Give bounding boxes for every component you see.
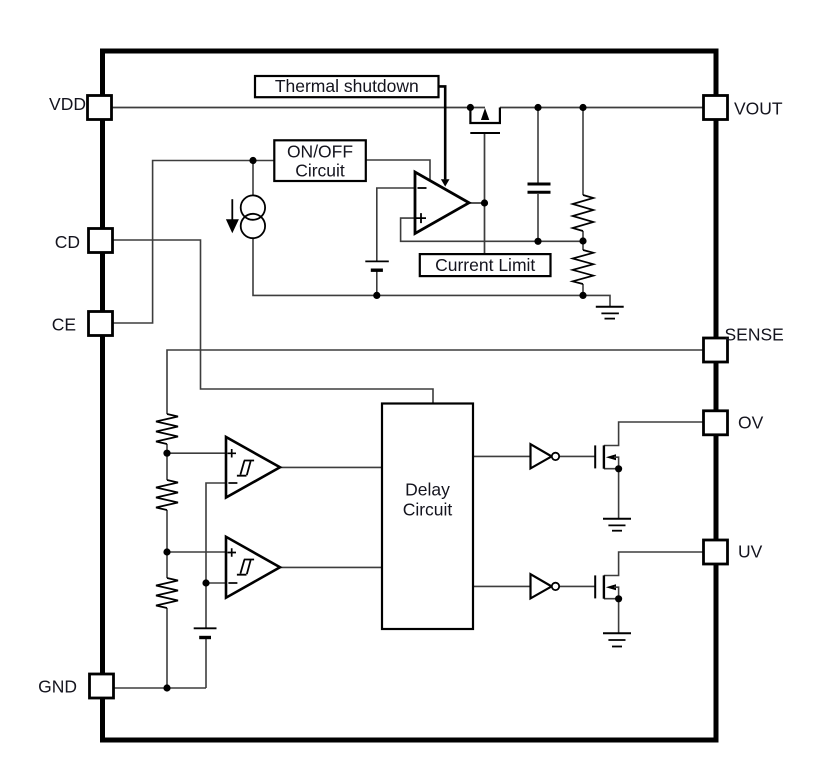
svg-text:Circuit: Circuit xyxy=(403,500,453,520)
node M1 source xyxy=(615,465,622,472)
node divider tap xyxy=(579,237,586,244)
node VDD/PMOS source xyxy=(467,104,474,111)
capacitor C1 xyxy=(528,184,551,192)
wire op-amp plus input feedback xyxy=(401,218,583,241)
wire M2 drain to UV pin xyxy=(604,552,704,576)
svg-text:ON/OFF: ON/OFF xyxy=(287,142,353,162)
pin VOUT xyxy=(704,96,783,120)
comparator B xyxy=(226,537,280,598)
svg-text:CE: CE xyxy=(52,315,76,335)
wire M1 drain to OV pin xyxy=(604,422,704,446)
svg-text:Delay: Delay xyxy=(405,480,450,500)
wire divider tap lead xyxy=(582,231,584,250)
resistor RA xyxy=(156,414,178,444)
wire chain RA-RB xyxy=(166,444,168,480)
resistor R1 xyxy=(573,195,594,231)
ground symbol M1 xyxy=(603,519,631,531)
resistor RB xyxy=(156,480,178,510)
wire Delay to inverter B xyxy=(473,585,531,587)
wire GND rail xyxy=(114,687,207,689)
pin SENSE xyxy=(704,325,784,363)
wire divider top lead xyxy=(582,108,584,196)
battery B1 (Vref) xyxy=(365,261,389,270)
wire op-amp output node xyxy=(469,133,485,254)
svg-text:SENSE: SENSE xyxy=(725,325,784,345)
svg-text:VOUT: VOUT xyxy=(734,99,783,119)
node capacitor top xyxy=(534,104,541,111)
node op-amp output xyxy=(481,199,488,206)
resistor R2 xyxy=(573,250,594,284)
box delay circuit xyxy=(382,404,473,630)
pin OV xyxy=(704,411,764,435)
wire comparator A output to Delay xyxy=(280,466,382,468)
wire ON/OFF output to op-amp xyxy=(366,160,430,181)
wire tap1 to comparator A plus xyxy=(167,452,226,454)
svg-text:CD: CD xyxy=(55,232,80,252)
pin UV xyxy=(704,540,763,564)
wire op-amp minus input to reference battery xyxy=(377,188,415,261)
node M2 source xyxy=(615,595,622,602)
wire M1 source to ground xyxy=(604,469,619,519)
node chain tap2 xyxy=(163,548,170,555)
wire battery B1 bottom lead xyxy=(376,272,378,296)
pmos pass transistor Q1 xyxy=(470,108,500,134)
box thermal shutdown xyxy=(255,76,439,97)
node battery B1 bottom xyxy=(373,292,380,299)
wire chain RB-RC xyxy=(166,510,168,578)
wire current source to internal ground rail xyxy=(253,238,610,307)
pin GND xyxy=(38,674,113,698)
node chain bottom xyxy=(163,684,170,691)
wire VDD rail left segment xyxy=(112,107,485,109)
inverter A xyxy=(531,444,560,468)
op-amp U1 xyxy=(415,172,469,234)
ground symbol M2 xyxy=(603,633,631,646)
wire Delay to inverter A xyxy=(473,455,531,457)
wire inverter B to M2 gate xyxy=(559,585,595,587)
comparator A xyxy=(226,437,280,498)
node divider top xyxy=(579,104,586,111)
node divider bottom xyxy=(579,292,586,299)
wire comparator B output to Delay xyxy=(280,566,382,568)
wire inverter A to M1 gate xyxy=(559,455,595,457)
battery B2 (comparator reference) xyxy=(194,628,217,637)
pin CD xyxy=(55,229,113,253)
pin VDD xyxy=(49,94,111,120)
svg-text:UV: UV xyxy=(738,542,763,562)
current source I1 xyxy=(226,195,265,238)
wire capacitor bottom lead xyxy=(537,194,539,241)
svg-text:Current Limit: Current Limit xyxy=(435,255,535,275)
node capacitor bottom xyxy=(534,238,541,245)
svg-text:Circuit: Circuit xyxy=(295,161,345,181)
box ON/OFF circuit xyxy=(274,140,366,181)
node chain tap1 xyxy=(163,450,170,457)
wire CE to ON/OFF input xyxy=(113,161,275,324)
wire divider bottom lead xyxy=(582,284,584,295)
wire capacitor top lead xyxy=(537,108,539,183)
svg-text:GND: GND xyxy=(38,677,77,697)
svg-text:Thermal shutdown: Thermal shutdown xyxy=(275,76,419,96)
pin CE xyxy=(52,312,113,336)
nmos M1 (OV driver) xyxy=(595,445,618,468)
inverter B xyxy=(531,574,560,598)
resistor RC xyxy=(156,578,178,608)
node reference to comparator B xyxy=(202,579,209,586)
wire tap2 to comparator B plus xyxy=(167,551,226,553)
wire SENSE to resistor chain xyxy=(167,350,704,414)
wire battery B2 to GND rail xyxy=(205,639,207,688)
wire CD to Delay Circuit top xyxy=(113,240,434,404)
wire M2 source to ground xyxy=(604,599,619,634)
wire reference net to comparator minus inputs xyxy=(206,483,226,628)
ground symbol regulator divider xyxy=(596,307,624,319)
box current limit xyxy=(420,254,551,276)
node ON/OFF input xyxy=(249,157,256,164)
wire thermal shutdown arrow xyxy=(439,86,450,186)
wire current source top lead xyxy=(252,161,254,196)
IC boundary xyxy=(103,51,717,740)
svg-text:OV: OV xyxy=(738,413,764,433)
wire chain RC to GND rail xyxy=(166,608,168,688)
nmos M2 (UV driver) xyxy=(595,575,618,598)
wire VOUT rail right segment xyxy=(500,107,704,109)
svg-text:VDD: VDD xyxy=(49,94,86,114)
